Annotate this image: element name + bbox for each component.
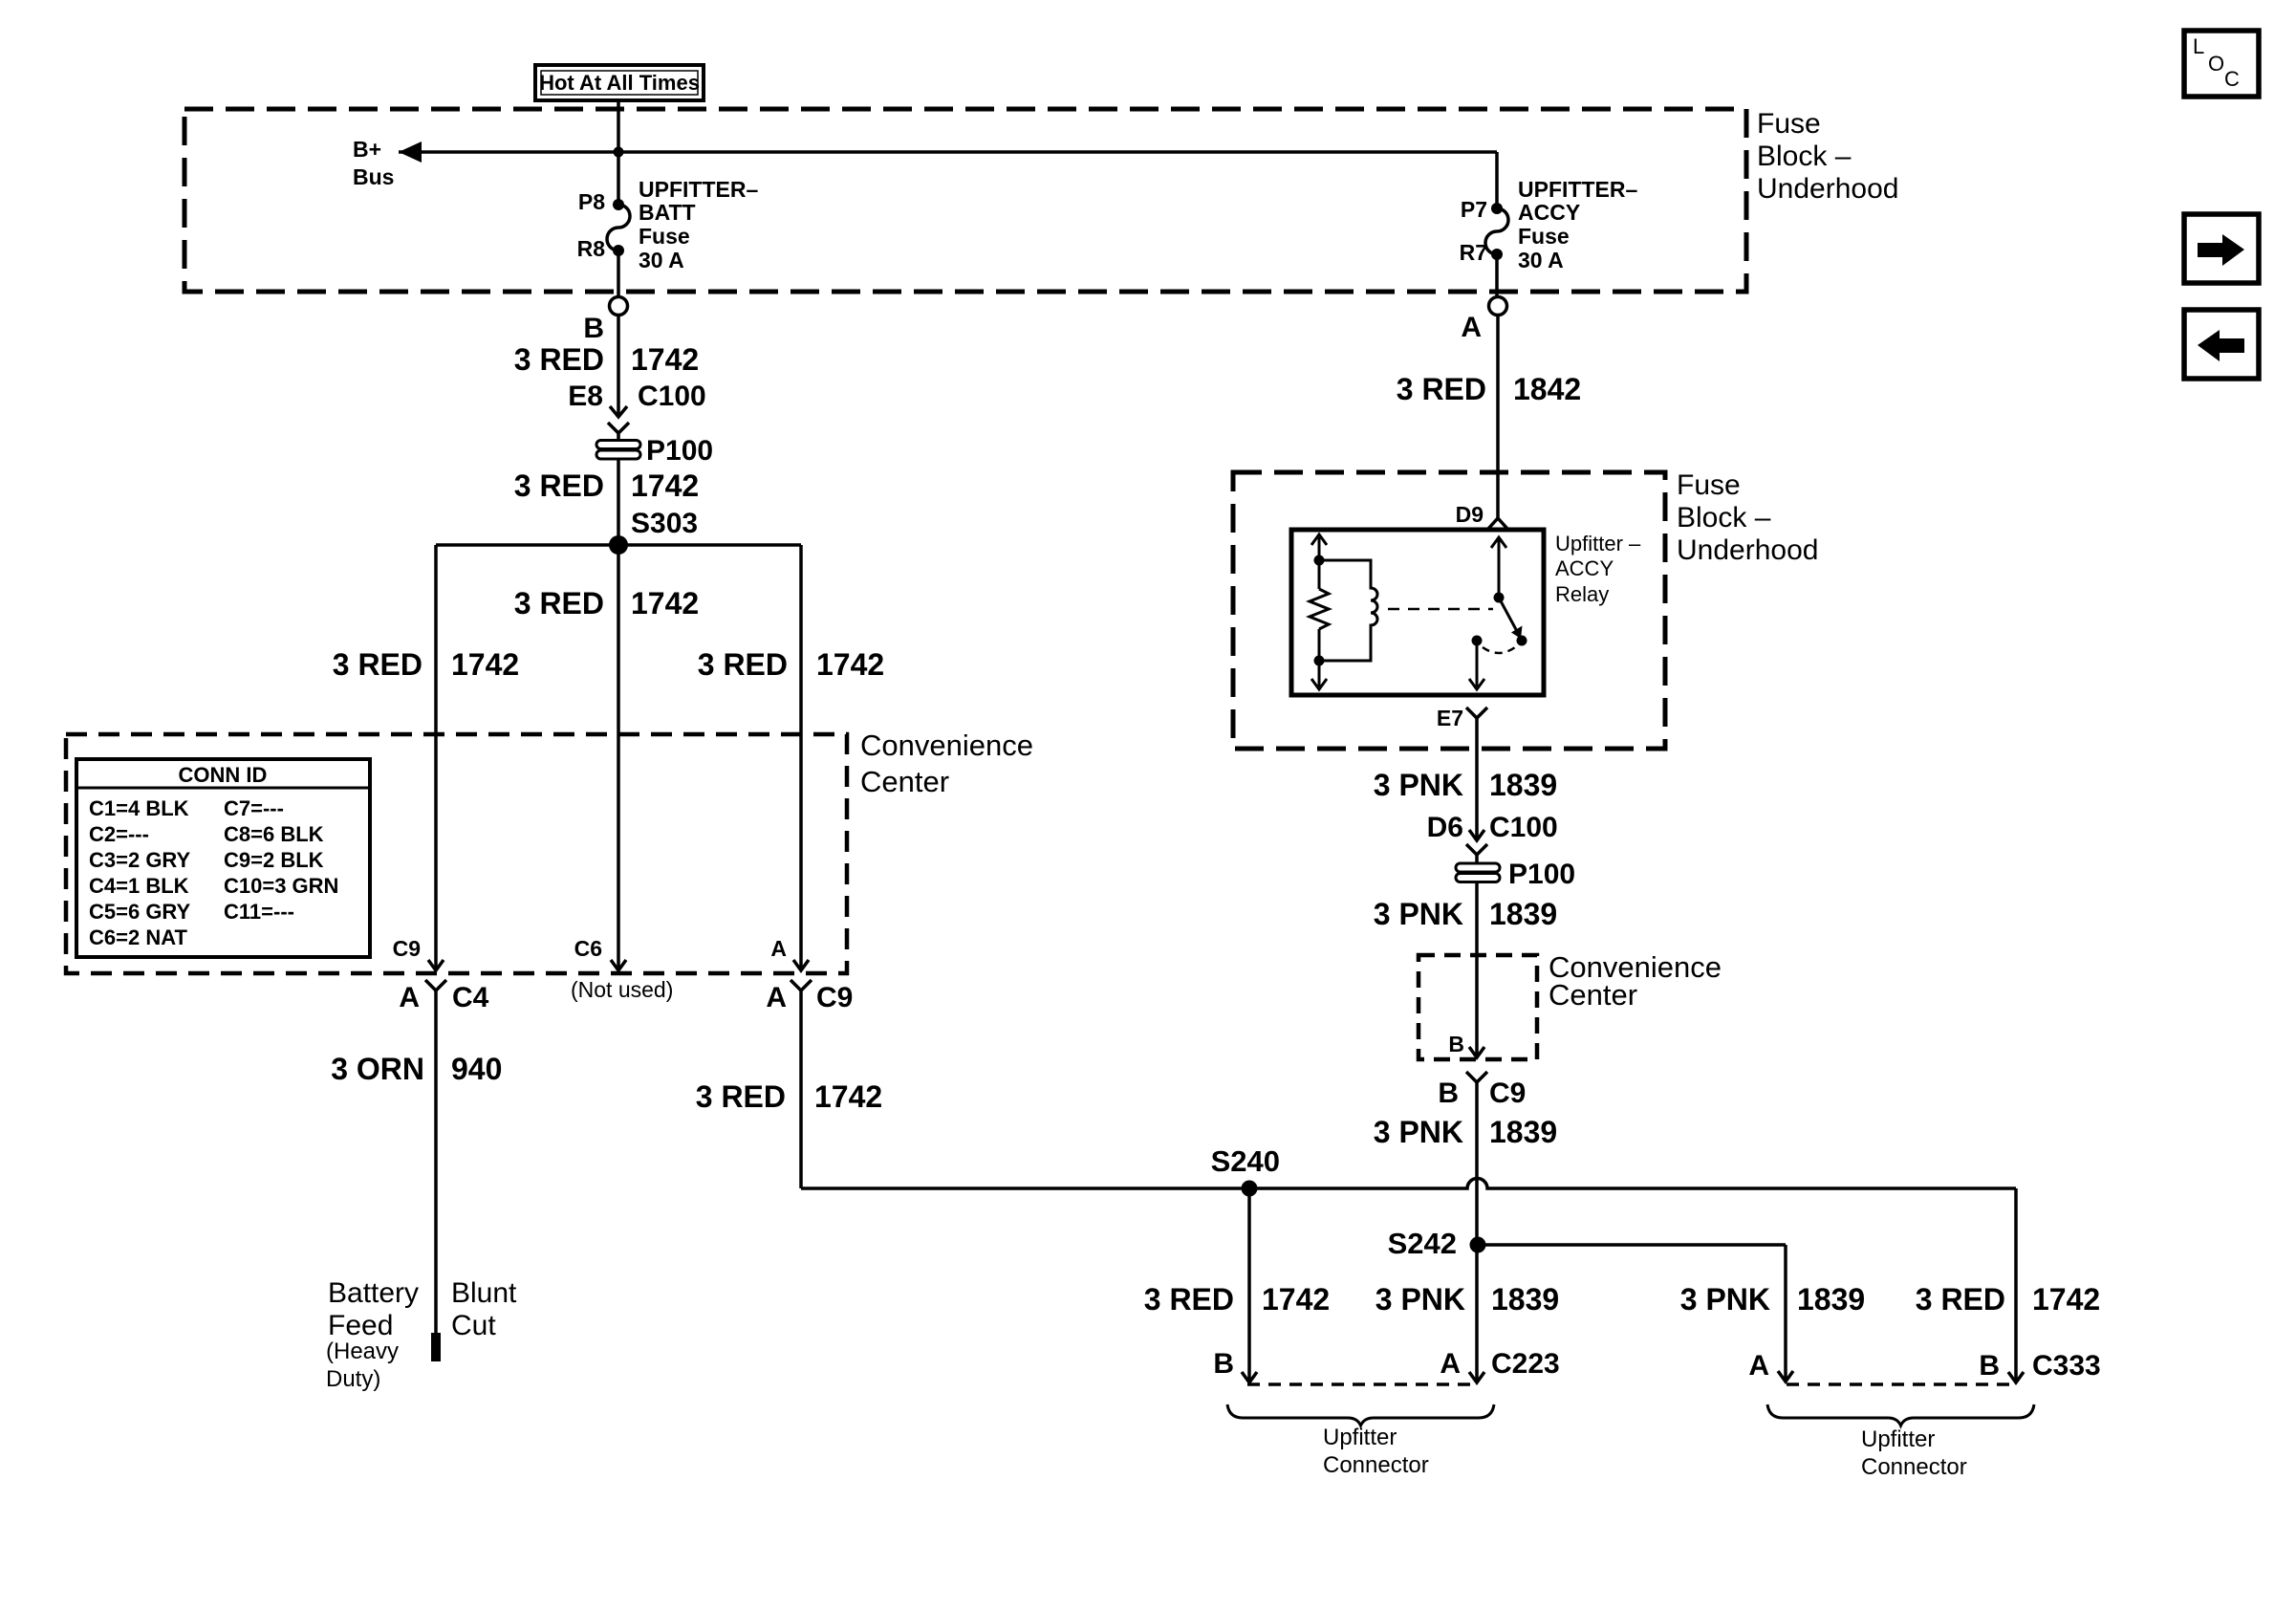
svg-text:Center: Center [860, 765, 949, 798]
svg-text:A: A [770, 936, 787, 961]
svg-text:C9: C9 [393, 936, 421, 961]
svg-text:(Heavy: (Heavy [326, 1339, 399, 1364]
svg-text:D6: D6 [1427, 812, 1463, 843]
svg-text:P8: P8 [578, 189, 605, 214]
svg-text:C1=4 BLK: C1=4 BLK [89, 796, 189, 820]
svg-text:3 PNK: 3 PNK [1374, 768, 1463, 802]
svg-text:C333: C333 [2032, 1350, 2101, 1382]
svg-text:3 PNK: 3 PNK [1680, 1282, 1770, 1317]
svg-text:Duty): Duty) [326, 1366, 380, 1392]
svg-text:1839: 1839 [1489, 1115, 1557, 1149]
svg-text:E8: E8 [568, 381, 603, 412]
svg-text:B+: B+ [353, 137, 381, 162]
svg-text:Upfitter: Upfitter [1861, 1426, 1935, 1452]
svg-text:C3=2 GRY: C3=2 GRY [89, 848, 191, 872]
svg-text:A: A [399, 982, 420, 1013]
svg-text:E7: E7 [1437, 706, 1463, 730]
svg-text:1742: 1742 [814, 1079, 882, 1114]
svg-text:Cut: Cut [451, 1310, 496, 1341]
svg-text:Battery: Battery [328, 1277, 419, 1309]
svg-text:Upfitter –: Upfitter – [1555, 532, 1641, 555]
svg-text:C8=6 BLK: C8=6 BLK [224, 822, 324, 846]
svg-text:UPFITTER–: UPFITTER– [639, 177, 758, 202]
svg-text:1839: 1839 [1491, 1282, 1559, 1317]
svg-text:C5=6 GRY: C5=6 GRY [89, 900, 191, 924]
svg-text:P7: P7 [1461, 197, 1487, 222]
svg-text:3 RED: 3 RED [514, 586, 604, 620]
svg-text:B: B [1438, 1078, 1459, 1109]
svg-text:1839: 1839 [1489, 897, 1557, 931]
svg-text:B: B [583, 313, 604, 344]
svg-text:C4=1 BLK: C4=1 BLK [89, 874, 189, 898]
svg-text:1742: 1742 [2032, 1282, 2100, 1317]
svg-text:B: B [1979, 1350, 2000, 1382]
svg-text:Connector: Connector [1323, 1452, 1429, 1478]
svg-text:O: O [2208, 52, 2224, 76]
svg-text:C100: C100 [1489, 812, 1558, 843]
svg-text:Underhood: Underhood [1677, 534, 1818, 566]
svg-text:C: C [2224, 67, 2240, 91]
svg-text:1742: 1742 [451, 647, 519, 682]
svg-text:30 A: 30 A [1518, 248, 1564, 272]
svg-text:A: A [1440, 1348, 1461, 1380]
svg-text:3 PNK: 3 PNK [1374, 1115, 1463, 1149]
svg-text:C4: C4 [452, 982, 489, 1013]
svg-text:B: B [1448, 1032, 1464, 1056]
svg-text:D9: D9 [1456, 502, 1484, 527]
svg-text:P100: P100 [1508, 859, 1575, 890]
svg-text:3 RED: 3 RED [514, 468, 604, 503]
svg-text:3 RED: 3 RED [1916, 1282, 2005, 1317]
svg-text:C7=---: C7=--- [224, 796, 284, 820]
svg-text:(Not used): (Not used) [571, 977, 673, 1002]
svg-text:C223: C223 [1491, 1348, 1560, 1380]
svg-text:1742: 1742 [631, 342, 699, 377]
svg-text:ACCY: ACCY [1555, 556, 1614, 580]
svg-text:Convenience: Convenience [860, 729, 1033, 762]
svg-text:C9: C9 [1489, 1078, 1526, 1109]
svg-text:UPFITTER–: UPFITTER– [1518, 177, 1637, 202]
svg-text:1839: 1839 [1797, 1282, 1865, 1317]
svg-text:Connector: Connector [1861, 1454, 1967, 1480]
svg-text:C6=2 NAT: C6=2 NAT [89, 925, 187, 949]
svg-text:1742: 1742 [816, 647, 884, 682]
svg-text:S242: S242 [1388, 1227, 1457, 1260]
svg-text:Fuse: Fuse [1757, 108, 1821, 140]
svg-text:CONN ID: CONN ID [179, 763, 268, 787]
svg-text:3 PNK: 3 PNK [1375, 1282, 1465, 1317]
svg-text:C9: C9 [816, 982, 853, 1013]
svg-text:3 ORN: 3 ORN [331, 1052, 424, 1086]
svg-text:3 RED: 3 RED [698, 647, 788, 682]
svg-text:3 RED: 3 RED [1397, 372, 1486, 406]
svg-text:1839: 1839 [1489, 768, 1557, 802]
svg-text:1842: 1842 [1513, 372, 1581, 406]
svg-text:S303: S303 [631, 508, 698, 539]
svg-text:3 RED: 3 RED [514, 342, 604, 377]
svg-text:Upfitter: Upfitter [1323, 1425, 1397, 1450]
svg-text:C100: C100 [638, 381, 706, 412]
svg-text:Fuse: Fuse [1518, 224, 1570, 249]
svg-text:C6: C6 [574, 936, 602, 961]
svg-text:3 RED: 3 RED [1144, 1282, 1234, 1317]
svg-text:Fuse: Fuse [639, 224, 690, 249]
svg-text:Block –: Block – [1757, 141, 1852, 172]
svg-text:Relay: Relay [1555, 582, 1609, 606]
svg-text:P100: P100 [646, 435, 713, 467]
svg-text:Block –: Block – [1677, 502, 1771, 533]
svg-text:C2=---: C2=--- [89, 822, 149, 846]
svg-text:1742: 1742 [1262, 1282, 1330, 1317]
svg-text:Blunt: Blunt [451, 1277, 517, 1309]
svg-text:R7: R7 [1460, 240, 1487, 265]
svg-text:BATT: BATT [639, 200, 696, 225]
svg-text:Hot At All Times: Hot At All Times [539, 71, 700, 95]
svg-text:B: B [1213, 1348, 1234, 1380]
svg-text:1742: 1742 [631, 586, 699, 620]
svg-text:L: L [2193, 34, 2204, 58]
svg-text:C10=3 GRN: C10=3 GRN [224, 874, 338, 898]
svg-text:Center: Center [1549, 978, 1637, 1012]
svg-text:30 A: 30 A [639, 248, 684, 272]
svg-text:S240: S240 [1211, 1144, 1280, 1178]
svg-text:1742: 1742 [631, 468, 699, 503]
svg-text:A: A [1461, 312, 1482, 343]
svg-text:940: 940 [451, 1052, 502, 1086]
svg-text:Fuse: Fuse [1677, 469, 1741, 501]
svg-text:Bus: Bus [353, 164, 394, 189]
svg-text:ACCY: ACCY [1518, 200, 1580, 225]
svg-text:C11=---: C11=--- [224, 900, 294, 924]
svg-text:3 RED: 3 RED [696, 1079, 786, 1114]
svg-text:3 RED: 3 RED [333, 647, 422, 682]
svg-text:3 PNK: 3 PNK [1374, 897, 1463, 931]
svg-text:A: A [766, 982, 787, 1013]
svg-text:Feed: Feed [328, 1310, 393, 1341]
svg-text:Underhood: Underhood [1757, 173, 1898, 205]
svg-text:A: A [1748, 1350, 1769, 1382]
svg-text:C9=2 BLK: C9=2 BLK [224, 848, 324, 872]
svg-text:R8: R8 [577, 236, 606, 261]
